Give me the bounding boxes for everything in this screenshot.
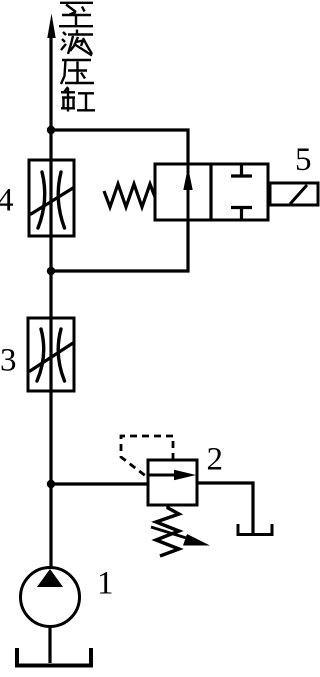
- svg-text:1: 1: [97, 566, 114, 602]
- label: 缸 hand-drawn glyph: [61, 87, 95, 112]
- throttle valve 4: left arc: [38, 172, 45, 228]
- valve 5: flow arrow (up) in left box: [183, 167, 192, 190]
- tank: main reservoir: [17, 648, 91, 666]
- wire: main vertical supply line: [49, 30, 52, 566]
- valve 5: body (two-position box): [155, 164, 268, 220]
- relief valve 2: body: [148, 460, 197, 505]
- pump 1: circle: [21, 568, 80, 627]
- throttle valve 4: body: [29, 160, 74, 236]
- wire: pump suction: [48, 628, 51, 663]
- pump 1: direction triangle: [37, 569, 63, 587]
- arrowhead: flow to cylinder (top): [47, 14, 55, 39]
- label: 液 hand-drawn glyph: [61, 30, 93, 56]
- throttle valve 4: adjustment slash: [31, 188, 73, 214]
- label: 压 hand-drawn glyph: [61, 60, 94, 84]
- node C: relief valve junction: [47, 480, 55, 488]
- svg-text:5: 5: [295, 142, 312, 178]
- valve 5: position divider: [209, 164, 212, 220]
- valve 5: spring (left): [104, 184, 155, 207]
- node B: lower bypass junction: [47, 267, 55, 275]
- relief valve 2: pilot line (dashed): [121, 436, 173, 477]
- wire: branch to relief valve 2: [51, 482, 148, 485]
- valve 5: closed port T top: [231, 164, 252, 176]
- wire: bypass bottom from valve 5 back to main line: [51, 220, 188, 271]
- svg-text:4: 4: [0, 183, 14, 219]
- valve 5: closed port T bottom: [231, 208, 252, 221]
- wire: valve 5 passage vertical (through left box): [187, 165, 190, 220]
- svg-text:3: 3: [0, 343, 17, 379]
- wire: bypass top horizontal + down to valve 5: [51, 130, 188, 165]
- node A: upper bypass junction: [47, 126, 55, 134]
- svg-text:2: 2: [207, 442, 224, 478]
- throttle valve 3: left arc: [37, 329, 44, 381]
- throttle valve 3: right arc: [58, 329, 64, 381]
- tank: relief drain: [238, 524, 272, 535]
- throttle valve 3: adjustment slash: [30, 343, 73, 371]
- valve 5: solenoid slash: [290, 185, 307, 204]
- valve 5: solenoid box: [270, 183, 318, 205]
- relief valve 2: spring adjustment arrow: [151, 527, 196, 541]
- wire: relief valve drain: [197, 483, 253, 533]
- relief valve 2: spring below: [156, 505, 179, 556]
- throttle valve 4: right arc: [58, 172, 64, 228]
- label: 至 (to) hand-drawn glyph: [59, 3, 93, 26]
- relief valve 2: internal flow arrow: [149, 474, 178, 477]
- throttle valve 3: body: [28, 318, 74, 391]
